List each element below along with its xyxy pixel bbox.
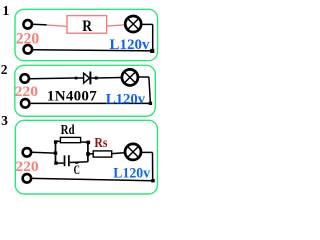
junction dot (circuit 3)	[151, 179, 154, 182]
wire top branch right	[81, 141, 88, 143]
svg-text:C: C	[74, 163, 80, 177]
junction entrance	[54, 151, 57, 154]
terminal bottom (circuit 2)	[21, 99, 30, 108]
enclosure box 1	[15, 9, 158, 60]
diode D1 1N4007	[84, 72, 91, 85]
wire right vertical (circuit 3)	[152, 152, 154, 180]
wire bottom (circuit 3)	[33, 178, 153, 180]
terminal top (circuit 2)	[20, 74, 29, 83]
junction exit	[86, 152, 90, 156]
junction dot left of diode	[75, 77, 78, 80]
wire bottom branch right	[70, 161, 88, 164]
wire right vertical (circuit 2)	[149, 77, 151, 103]
svg-text:220: 220	[16, 30, 40, 47]
wire top branch left	[56, 140, 61, 142]
wire terminal to network	[32, 151, 55, 154]
svg-text:L120v: L120v	[113, 165, 150, 181]
wire exit to Rs	[89, 153, 93, 155]
capacitor C	[65, 155, 69, 166]
junction dot (circuit 2)	[149, 102, 152, 105]
wire lamp right (circuit 2)	[138, 76, 149, 78]
svg-text:L120v: L120v	[106, 91, 146, 107]
terminal top (circuit 3)	[23, 148, 32, 157]
junction bottom-left	[54, 161, 57, 164]
terminal bottom (circuit 1)	[24, 45, 33, 54]
wire lamp right (circuit 1)	[142, 23, 153, 25]
junction dot right of diode	[95, 77, 98, 80]
parallel network left bar	[55, 142, 57, 163]
resistor Rd	[60, 137, 80, 142]
wire Rs to lamp	[112, 152, 124, 155]
junction top-left	[54, 140, 57, 143]
wire bottom branch left	[56, 162, 64, 164]
junction top-right	[87, 141, 91, 145]
lamp L2	[122, 69, 138, 85]
lamp L3	[125, 144, 141, 160]
svg-text:2: 2	[1, 62, 8, 77]
parallel network right bar	[87, 142, 89, 162]
enclosure box 2	[15, 65, 156, 116]
wire bottom (circuit 1)	[33, 50, 153, 51]
svg-text:L120v: L120v	[110, 37, 150, 53]
svg-text:Rs: Rs	[94, 135, 107, 150]
wire lamp right (circuit 3)	[141, 151, 152, 153]
wire diode to junction	[91, 77, 95, 79]
resistor Rs	[93, 151, 112, 157]
svg-text:220: 220	[15, 84, 38, 100]
svg-text:3: 3	[1, 113, 8, 128]
wire salmon R to lamp	[107, 25, 125, 26]
wire stub below bottom branch	[75, 162, 79, 163]
svg-text:220: 220	[15, 159, 38, 175]
resistor R	[67, 16, 107, 35]
terminal top (circuit 1)	[23, 20, 32, 29]
svg-text:1N4007: 1N4007	[47, 88, 97, 104]
svg-text:1: 1	[2, 4, 9, 19]
wire to lamp (circuit 2)	[98, 77, 121, 80]
wire terminal stub (circuit 1)	[32, 23, 47, 26]
wire terminal to diode	[30, 77, 76, 80]
wire salmon to R	[47, 25, 68, 27]
junction dot (circuit 1)	[150, 49, 154, 53]
enclosure box 3	[15, 120, 157, 194]
lamp L1	[125, 16, 141, 32]
wire to diode	[77, 77, 84, 79]
terminal bottom (circuit 3)	[23, 174, 32, 183]
wire bottom (circuit 2)	[31, 102, 151, 104]
svg-text:R: R	[82, 18, 92, 35]
wire right vertical (circuit 1)	[152, 24, 154, 51]
svg-text:Rd: Rd	[61, 122, 75, 137]
